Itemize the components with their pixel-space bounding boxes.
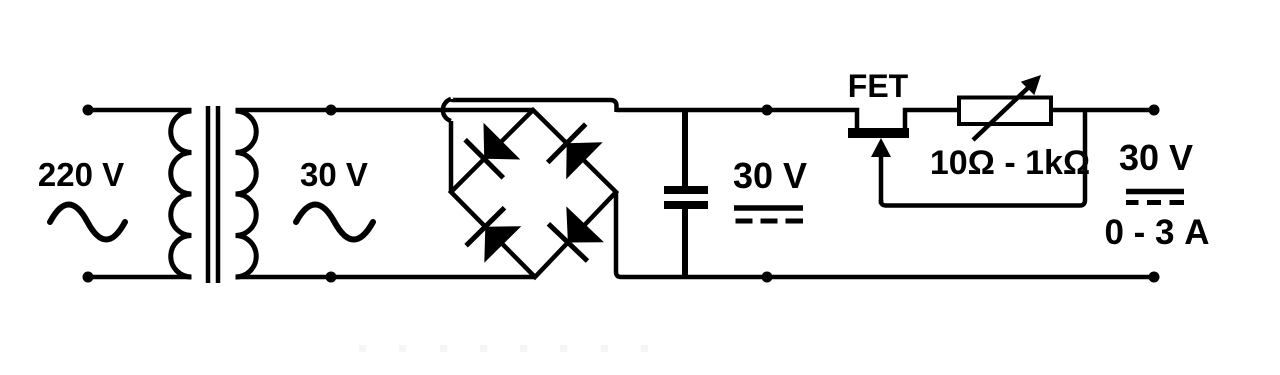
transistor Q1 gate arrow xyxy=(879,150,884,204)
wire: DC+ riser from left vertex xyxy=(449,121,454,192)
transistor Q1 FET channel bar xyxy=(848,128,909,138)
node: DC bus top dot xyxy=(762,105,773,116)
DC symbol (output) solid bar xyxy=(1126,189,1184,195)
wire: secondary bottom to bridge AC node xyxy=(236,275,536,280)
resistor R1 adjustment arrow xyxy=(973,86,1030,140)
node: secondary top dot xyxy=(326,105,337,116)
resistor R1 (variable) body xyxy=(959,98,1051,125)
transformer T1 core xyxy=(208,106,218,283)
node: DC bus bottom dot xyxy=(762,272,773,283)
wire: secondary top to bridge AC node xyxy=(236,108,534,113)
diode D4 (bottom-right) xyxy=(548,206,604,261)
wire hop over AC wire xyxy=(443,99,451,121)
DC symbol (output) dashed bar xyxy=(1126,200,1184,205)
AC sine symbol (secondary) xyxy=(296,205,373,240)
diode D1 (top-left) xyxy=(465,123,520,178)
wire: top rail bridge to FET xyxy=(617,110,858,133)
capacitor C1 bottom lead xyxy=(682,209,688,277)
transformer T1 primary winding xyxy=(171,111,192,277)
transformer T1 secondary winding xyxy=(236,111,257,277)
svg-text:0 - 3 A: 0 - 3 A xyxy=(1104,213,1209,252)
svg-text:220 V: 220 V xyxy=(38,156,124,193)
capacitor C1 top lead xyxy=(682,110,688,186)
wire: DC+ overpass to top rail xyxy=(451,99,617,112)
node: secondary bottom dot xyxy=(326,272,337,283)
svg-text:30 V: 30 V xyxy=(733,155,807,196)
capacitor C1 plates xyxy=(664,190,708,205)
diode D3 (top-right) xyxy=(548,124,603,179)
node: primary top terminal dot xyxy=(83,105,94,116)
DC symbol (filtered) dashed bar xyxy=(736,219,804,224)
wire: top rail resistor to output xyxy=(1051,108,1154,113)
wire: DC- drop from right vertex to bottom rail xyxy=(616,192,1154,277)
node: output top terminal dot xyxy=(1149,105,1160,116)
svg-text:FET: FET xyxy=(848,68,909,104)
wire: primary top lead xyxy=(88,108,192,113)
node: primary bottom terminal dot xyxy=(83,272,94,283)
svg-text:30 V: 30 V xyxy=(1119,137,1193,178)
bridge rectifier diamond xyxy=(451,110,616,277)
wire: primary bottom lead xyxy=(88,275,192,280)
faint artifact dots (bottom) xyxy=(359,345,648,352)
node: output bottom terminal dot xyxy=(1149,272,1160,283)
AC sine symbol (primary) xyxy=(50,205,125,240)
svg-text:30 V: 30 V xyxy=(300,156,368,193)
DC symbol (filtered) solid bar xyxy=(734,205,803,211)
wire: gate feedback loop xyxy=(881,110,1085,206)
svg-text:10Ω - 1kΩ: 10Ω - 1kΩ xyxy=(930,144,1090,182)
wire: FET drain up to rail and to resistor xyxy=(905,110,959,133)
diode D2 (bottom-left) xyxy=(466,208,521,263)
